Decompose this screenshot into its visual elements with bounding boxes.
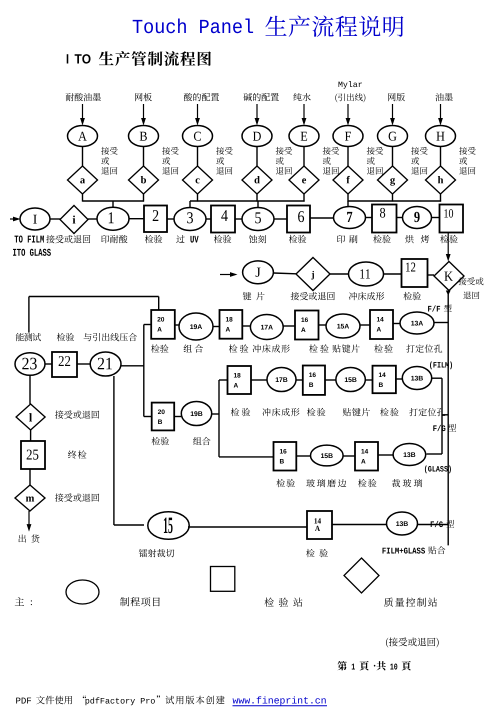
heading 生产管制流程图: [99, 51, 114, 65]
wire I-i: [50, 218, 61, 220]
label 检验 20B: [152, 437, 161, 445]
wire h drop: [440, 194, 442, 202]
legend box: [211, 567, 235, 592]
label 耐酸油墨: [66, 93, 74, 101]
label 过 UV: [176, 235, 184, 243]
box 14A: [370, 310, 393, 339]
wire d drop: [256, 194, 258, 202]
wire 3-4: [206, 218, 211, 220]
label 检验站: [264, 598, 273, 607]
arrow into G: [392, 104, 394, 120]
label 接受或退回 l: [55, 410, 63, 418]
ellipse 17B: [267, 368, 296, 392]
label 检验 16B: [307, 408, 316, 416]
box 18A2: [228, 366, 252, 394]
wire 6-7: [310, 217, 334, 219]
wire 12-K: [428, 274, 435, 276]
diamond l: [16, 404, 45, 430]
diamond i: [60, 206, 88, 234]
label 出货: [18, 535, 25, 543]
diamond d: [242, 166, 272, 194]
ellipse J: [243, 261, 274, 284]
wire 13B3 right: [418, 524, 449, 526]
wire c drop: [197, 194, 199, 202]
wire A-a: [82, 147, 84, 167]
footer link: [233, 698, 239, 703]
arrow into E: [303, 104, 305, 120]
ellipse 13A: [400, 312, 434, 334]
label 冲床成形 17B: [262, 408, 270, 416]
wire F-f: [347, 147, 349, 167]
wire 15B2-14A2: [343, 455, 355, 457]
wire 9-10: [432, 217, 440, 219]
legend diamond: [344, 558, 379, 593]
label 制程项目: [120, 597, 129, 606]
wire drop into 3: [189, 201, 191, 208]
wire 25-m: [29, 469, 31, 485]
diamond a: [68, 166, 98, 194]
ellipse 17A: [250, 315, 283, 340]
wire G-g: [392, 147, 394, 167]
arrow into F: [347, 104, 349, 120]
box 20B: [152, 403, 175, 431]
wire e drop: [303, 194, 305, 202]
label 组合 19B: [193, 437, 201, 445]
label 检验 4: [214, 235, 223, 243]
arrow K down: [446, 291, 451, 296]
label 裁玻璃: [392, 479, 400, 487]
wire 19A-20A: [175, 324, 179, 326]
label 印刷: [337, 235, 345, 243]
box 16B2: [274, 442, 297, 471]
wire 13A-14A: [393, 323, 400, 325]
wire a drop: [82, 194, 84, 202]
wire bus f-h: [348, 200, 441, 202]
wire drop into 7: [347, 201, 349, 207]
wire 16B2-15B2: [296, 455, 310, 457]
label 纯水: [293, 93, 301, 101]
wire l-25: [30, 430, 32, 441]
wire 5-6: [274, 218, 287, 220]
label (引出线): [335, 94, 337, 103]
ellipse 7: [334, 207, 366, 229]
label 检验 22: [57, 333, 66, 341]
box 2: [144, 206, 167, 233]
label FILM+GLASS 贴合: [382, 548, 385, 554]
wire 16A-17A: [283, 325, 295, 327]
label 镭射裁切: [139, 549, 148, 557]
label 冲床成形 17A: [253, 344, 261, 352]
ellipse 15 laser: [148, 512, 189, 540]
arrow into C: [197, 104, 199, 120]
label 网版: [388, 93, 395, 101]
wire E-e: [303, 147, 305, 167]
box 25: [21, 441, 45, 469]
label (GLASS): [425, 466, 427, 474]
ellipse 5: [242, 208, 274, 231]
wire 18A-19A: [213, 326, 220, 328]
box 20A: [151, 310, 175, 339]
label 打定位孔 13B: [409, 408, 417, 416]
diamond b: [129, 166, 159, 194]
wire 13B bracket: [432, 377, 442, 379]
footer pdf text: [16, 698, 20, 704]
arrow into B: [143, 104, 145, 120]
label 质量控制站: [384, 598, 393, 607]
wire bus a-b: [83, 200, 145, 202]
label 接受或退回 j: [291, 292, 299, 300]
ellipse 21: [90, 352, 121, 376]
box 10: [440, 205, 464, 233]
label F/F 型: [428, 306, 431, 312]
ellipse 15B: [336, 368, 365, 392]
ellipse 15A: [326, 314, 360, 338]
label 酸的配置: [184, 93, 192, 101]
label 贴键片 15B: [343, 408, 351, 416]
wire 1-2: [129, 218, 144, 220]
label 检验 12: [403, 292, 412, 300]
arrow into J: [220, 274, 232, 276]
wire 17A-18A: [242, 325, 250, 327]
wire 14B-13B: [396, 378, 402, 380]
label 接受或退回 m: [55, 493, 63, 501]
box 22: [52, 352, 77, 377]
legend ellipse: [66, 580, 99, 604]
ellipse B: [129, 126, 159, 147]
label 检验 2: [145, 235, 154, 243]
ellipse C: [183, 126, 213, 147]
title 生产流程说明: [265, 16, 286, 36]
wire 20A top link: [158, 297, 160, 311]
label 网板: [135, 93, 142, 101]
label 油墨: [435, 93, 443, 101]
label Mylar: [339, 82, 343, 87]
label 检验 10: [440, 235, 449, 243]
ellipse G: [378, 126, 408, 147]
label F/G 型 bottom: [431, 521, 434, 527]
label 碱的配置: [243, 93, 251, 101]
box check bottom: [307, 511, 332, 539]
diamond e: [289, 166, 319, 194]
label (接受或退回): [386, 638, 388, 648]
ellipse I: [20, 208, 50, 230]
label (FILM): [430, 362, 432, 370]
wire 20B-19B: [174, 416, 181, 418]
label 检验 14A: [374, 344, 383, 352]
wire f drop: [347, 194, 349, 202]
title Touch Panel: [133, 20, 143, 33]
arrow into A: [82, 104, 84, 120]
box 18A: [220, 310, 243, 339]
label 接受或 K: [459, 277, 467, 285]
label 检验 bottom: [306, 549, 315, 557]
label 检验 16B2: [276, 479, 285, 487]
label 检验 18A: [229, 344, 238, 352]
wire 18A2-17B: [251, 379, 267, 381]
wire 19B stub: [212, 413, 219, 415]
arrow into H: [440, 104, 442, 120]
wire g drop: [392, 194, 394, 202]
wire 7-8: [366, 217, 373, 219]
wire drop into 5: [257, 201, 259, 208]
label 接受或退回 col H: [459, 147, 467, 155]
ellipse 3: [174, 208, 206, 231]
wire 15B-14B: [365, 379, 372, 381]
label 检验 16A: [309, 344, 318, 352]
arrow into D: [256, 104, 258, 120]
wire D-d: [256, 147, 258, 167]
diamond K: [434, 262, 464, 291]
wire bus c-e: [190, 200, 305, 202]
wire check-13B3: [332, 524, 387, 526]
wire 4-5: [235, 218, 242, 220]
label F/G 型: [433, 425, 436, 431]
label 退回 K: [463, 292, 471, 300]
label 烘烤: [405, 235, 413, 243]
wire K to 13A: [434, 322, 448, 324]
ellipse H: [426, 126, 456, 147]
wire 21 down: [113, 376, 115, 525]
label 检验 14A2: [358, 479, 367, 487]
label 接受或退回 i: [46, 235, 54, 243]
ellipse F: [333, 126, 363, 147]
ellipse 11: [349, 262, 384, 286]
wire 2-3: [167, 218, 174, 220]
label 检验 8: [373, 235, 382, 243]
arrow into I: [10, 218, 15, 220]
box 12: [402, 259, 428, 287]
box 8: [372, 205, 397, 233]
label page number: [337, 661, 346, 670]
label 接受或退回 col C: [216, 147, 224, 155]
box 6: [287, 206, 310, 233]
label 检验 14B: [380, 408, 389, 416]
label 键片: [243, 292, 251, 300]
wire 21 link: [121, 365, 144, 367]
label 贴键片 15A: [332, 345, 340, 353]
label 组合 19A: [184, 345, 192, 353]
ellipse 15B2: [311, 445, 344, 466]
ellipse 9: [403, 207, 432, 229]
wire 15A-16A: [319, 324, 327, 326]
ellipse 13B2: [393, 444, 426, 466]
wire 14A-15A: [360, 324, 370, 326]
arrow 出货: [28, 511, 30, 526]
label ITO GLASS: [13, 249, 16, 256]
label 接受或退回 col B: [162, 147, 170, 155]
label TO FILM: [15, 236, 19, 243]
box 14B: [373, 366, 396, 394]
ellipse 13B: [402, 367, 431, 390]
label 检验 18A2: [231, 408, 240, 416]
diamond c: [183, 166, 213, 194]
ellipse A: [68, 126, 98, 147]
diamond h: [426, 166, 456, 194]
diamond f: [333, 166, 363, 194]
wire i-1: [88, 218, 98, 220]
wire 23-l: [29, 375, 31, 404]
box 4: [211, 206, 235, 233]
box 16B: [303, 366, 325, 395]
wire J-j: [273, 272, 296, 275]
heading ITO: [67, 54, 69, 63]
label 玻璃磨边: [306, 479, 315, 487]
wire 15-check: [188, 526, 307, 528]
wire 10 down to K: [447, 233, 449, 256]
label 主 :: [15, 597, 24, 606]
label 接受或退回 col D: [276, 147, 284, 155]
label 检验 20A: [151, 344, 160, 352]
wire 23-22: [45, 363, 52, 365]
label 检验 6: [289, 235, 298, 243]
label 冲床成形 11: [349, 292, 357, 300]
wire 8-9: [397, 217, 404, 219]
ellipse 13B3: [387, 512, 418, 535]
diamond j: [296, 258, 330, 291]
wire 14A2-13B2: [378, 454, 393, 456]
diamond g: [378, 166, 408, 194]
label 与引出线压合: [84, 333, 92, 341]
label 接受或退回 col A: [101, 147, 109, 155]
wire 16B-15B: [325, 379, 336, 381]
wire C-c: [197, 147, 199, 167]
wire drop into 1: [112, 201, 114, 208]
label 接受或退回 col E: [323, 147, 331, 155]
label 终检: [68, 450, 76, 458]
ellipse D: [242, 126, 272, 147]
ellipse 1: [97, 207, 129, 230]
wire 17B-16B: [296, 379, 303, 381]
wire H-h: [440, 147, 442, 167]
label 印耐酸: [101, 235, 109, 243]
label 打定位孔 13A: [406, 344, 414, 352]
ellipse 19A: [179, 313, 213, 340]
wire rowB junction: [219, 379, 228, 381]
wire B-b: [143, 147, 145, 167]
ellipse E: [289, 126, 319, 147]
label 能测试: [16, 333, 24, 341]
label 蚀刻: [249, 235, 257, 243]
ellipse 19B: [181, 402, 211, 426]
wire 11-12: [384, 273, 402, 275]
wire 22-21: [77, 363, 90, 365]
ellipse 23: [15, 353, 45, 376]
wire 20A-20B vertical: [144, 324, 151, 326]
diamond m: [15, 485, 45, 511]
wire j-11: [330, 273, 349, 275]
box 14A2: [355, 442, 378, 471]
label 接受或退回 col G: [411, 147, 419, 155]
box 16A: [295, 311, 319, 340]
label 接受或退回 col F: [367, 147, 375, 155]
wire b drop: [143, 194, 145, 202]
